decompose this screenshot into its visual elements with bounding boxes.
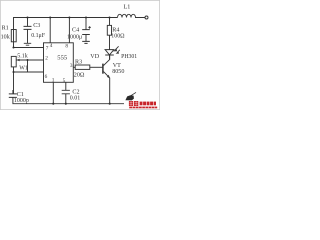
transistor VT base bar bbox=[102, 64, 104, 74]
url row gaps bbox=[132, 107, 154, 109]
wire pin6 to 555 bbox=[14, 71, 44, 73]
svg-text:PH301: PH301 bbox=[121, 54, 137, 60]
svg-text:5: 5 bbox=[63, 78, 66, 84]
watermark red character 1 bbox=[129, 101, 138, 106]
capacitor C3 bbox=[24, 18, 32, 44]
IC 555 box U1 bbox=[44, 43, 74, 83]
resistor R4 bbox=[107, 25, 111, 35]
wire R3 to VT base bbox=[90, 66, 103, 68]
border frame bbox=[0, 0, 159, 109]
wire pin7 from R1 junction to 555 bbox=[14, 47, 44, 49]
resistor R1 bbox=[11, 30, 16, 42]
watermark small red text bbox=[140, 102, 156, 106]
svg-text:2: 2 bbox=[45, 55, 48, 61]
svg-text:8050: 8050 bbox=[112, 69, 124, 75]
emitter arrowhead bbox=[107, 75, 110, 79]
svg-text:100Ω: 100Ω bbox=[111, 33, 125, 39]
transistor VT collector bbox=[104, 55, 110, 66]
node dot R1 pin7 bbox=[12, 46, 14, 48]
wire pin3 to R3 bbox=[73, 66, 75, 68]
inductor L1 bbox=[118, 14, 146, 17]
wire wiper down link bbox=[27, 60, 29, 72]
svg-text:10k: 10k bbox=[1, 34, 11, 40]
node dot ground emitter bbox=[109, 103, 111, 105]
svg-text:5.1k: 5.1k bbox=[17, 53, 28, 59]
resistor R3 bbox=[75, 65, 90, 69]
wire VCC top rail bbox=[14, 18, 118, 48]
terminal circle bbox=[145, 16, 148, 19]
svg-text:0.1μF: 0.1μF bbox=[31, 33, 46, 39]
node dot pin6 bus bbox=[12, 71, 14, 73]
watermark character slits bbox=[130, 101, 138, 106]
wire pin4 to rail bbox=[49, 18, 51, 43]
capacitor C1 bbox=[9, 90, 17, 98]
node dot rail C4 bbox=[85, 16, 87, 18]
capacitor C2 bbox=[62, 90, 70, 103]
svg-text:3: 3 bbox=[70, 63, 73, 69]
wiper arrowhead bbox=[16, 59, 19, 62]
svg-text:W1: W1 bbox=[19, 65, 28, 71]
watermark icon bbox=[125, 92, 136, 100]
svg-text:VD: VD bbox=[90, 54, 99, 60]
wire pin8 to rail bbox=[68, 18, 70, 43]
wire pin5 to C2 bbox=[65, 82, 67, 90]
svg-text:0.01: 0.01 bbox=[70, 96, 81, 102]
wire pin2 wiper to 555 bbox=[17, 59, 44, 61]
wire R4 to VD bbox=[109, 35, 111, 50]
node dot ground C2 bbox=[65, 103, 67, 105]
capacitor C4 bbox=[82, 18, 90, 42]
watermark url row bbox=[129, 107, 157, 109]
plus sign of C4 bbox=[88, 26, 90, 28]
svg-text:1000μ: 1000μ bbox=[67, 35, 82, 41]
wire left bus pot to C1 bbox=[13, 67, 15, 94]
node dot ground pin1 bbox=[52, 103, 54, 105]
node dot rail pin8 bbox=[68, 16, 70, 18]
svg-text:C3: C3 bbox=[33, 23, 40, 29]
svg-text:C4: C4 bbox=[72, 27, 79, 33]
diode VD PH301 bbox=[105, 50, 114, 55]
svg-text:R1: R1 bbox=[2, 25, 9, 31]
wire rail to R4 bbox=[109, 18, 111, 26]
ground for C3 bbox=[24, 43, 31, 45]
svg-text:C2: C2 bbox=[72, 89, 79, 95]
transistor VT emitter bbox=[104, 72, 110, 104]
light arrows of VD bbox=[115, 46, 119, 52]
node dot rail R4 bbox=[108, 16, 110, 18]
wire bottom ground rail bbox=[13, 98, 124, 104]
svg-text:R3: R3 bbox=[75, 60, 82, 66]
svg-text:VT: VT bbox=[113, 63, 121, 69]
ground for C4 bbox=[82, 41, 90, 43]
svg-text:1: 1 bbox=[52, 77, 55, 83]
node dot rail C3 bbox=[26, 16, 28, 18]
svg-text:C1: C1 bbox=[17, 92, 24, 98]
svg-text:L1: L1 bbox=[124, 4, 131, 11]
node dot rail pin4 bbox=[49, 16, 51, 18]
svg-text:20Ω: 20Ω bbox=[74, 72, 85, 78]
svg-text:7: 7 bbox=[46, 46, 49, 52]
svg-text:8: 8 bbox=[65, 44, 68, 50]
svg-text:4: 4 bbox=[50, 43, 53, 49]
potentiometer W1 body bbox=[11, 56, 16, 67]
svg-text:1000p: 1000p bbox=[14, 98, 29, 104]
node dot wiper bbox=[26, 59, 28, 61]
wire pin1 to ground rail bbox=[52, 82, 54, 103]
svg-text:6: 6 bbox=[45, 74, 48, 80]
svg-text:555: 555 bbox=[57, 54, 68, 61]
potentiometer W1 wiper arrow bbox=[19, 59, 28, 61]
